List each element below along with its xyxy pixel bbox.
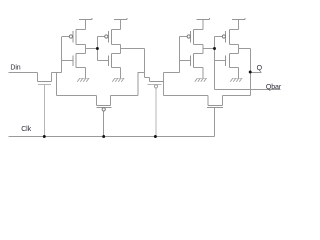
svg-text:Qbar: Qbar: [266, 84, 282, 91]
svg-text:Q: Q: [257, 65, 263, 72]
svg-text:Din: Din: [10, 65, 20, 72]
svg-text:Clk: Clk: [21, 126, 31, 133]
